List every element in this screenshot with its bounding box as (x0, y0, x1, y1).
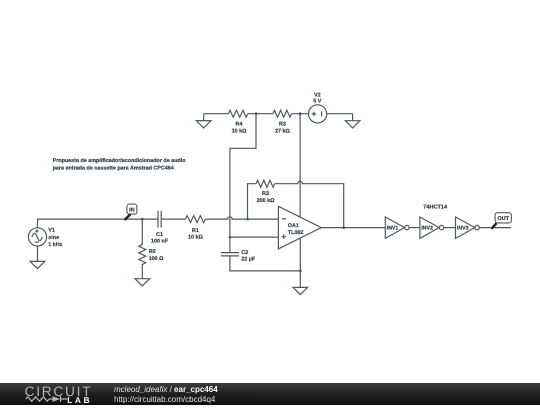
svg-text:200 kΩ: 200 kΩ (257, 198, 275, 204)
inverter INV2 (420, 217, 439, 238)
svg-text:R2: R2 (262, 191, 269, 197)
resistor R4 (228, 110, 247, 117)
wire V1 to ground (37, 246, 39, 261)
annotation text (53, 158, 187, 172)
node flag IN (125, 204, 137, 220)
ground G4 below R5 (135, 279, 150, 286)
wire branch R3V2-junction to opamp V+ (299, 114, 301, 217)
wire branch R4R3-junction to plus-input (230, 114, 256, 237)
svg-text:5 V: 5 V (313, 99, 321, 105)
junction dots (141, 218, 144, 221)
resistor R1 (186, 216, 206, 223)
svg-text:R4: R4 (236, 122, 243, 128)
svg-text:OUT: OUT (497, 216, 509, 222)
resistor R3 (273, 110, 292, 117)
svg-text:Propuesta de amplificador/acon: Propuesta de amplificador/acondicionador… (53, 158, 187, 164)
inverter INV1 (385, 217, 404, 238)
svg-text:INV3: INV3 (457, 226, 469, 232)
footer bar (0, 383, 540, 405)
wire R2 to output (hop over V+ wire) (275, 181, 344, 227)
svg-text:INV1: INV1 (387, 226, 399, 232)
op-amp OA1 triangle (278, 206, 321, 249)
svg-text:10 kΩ: 10 kΩ (188, 234, 203, 240)
source V1 (28, 228, 46, 246)
resistor R5 vertical (139, 219, 146, 279)
op-amp minus mark (282, 218, 286, 220)
svg-text:C1: C1 (156, 232, 163, 238)
svg-text:R3: R3 (279, 122, 286, 128)
svg-text:27 kΩ: 27 kΩ (275, 128, 290, 134)
svg-text:10 kΩ: 10 kΩ (232, 128, 247, 134)
svg-text:TL082: TL082 (288, 230, 304, 236)
svg-text:R1: R1 (192, 228, 199, 234)
voltage source V2 (309, 105, 327, 123)
ground G3 below V1 (30, 261, 45, 268)
wire C1 to R1 (161, 218, 185, 220)
wire top rail left (204, 113, 353, 115)
svg-text:C2: C2 (241, 250, 248, 256)
resistor R2 (256, 180, 274, 187)
ground G2 top-right (345, 114, 359, 128)
wire R2 branch up (248, 184, 257, 219)
wire V1 to main rail (38, 219, 159, 228)
svg-text:100 nF: 100 nF (151, 238, 169, 244)
svg-text:sine: sine (48, 235, 59, 241)
svg-text:V1: V1 (48, 228, 55, 234)
wire plus input (230, 236, 279, 238)
svg-text:LAB: LAB (67, 395, 92, 405)
svg-text:INV2: INV2 (421, 226, 433, 232)
svg-text:OA1: OA1 (288, 223, 299, 229)
op-amp plus mark (281, 234, 286, 239)
CircuitLab logo (0, 383, 110, 405)
ground G1 top-left (196, 114, 211, 128)
wire opamp V- to ground (293, 238, 308, 294)
svg-text:1 kHz: 1 kHz (48, 242, 62, 248)
svg-text:R5: R5 (149, 249, 156, 255)
svg-text:22 µF: 22 µF (241, 256, 256, 262)
capacitor C1 (158, 211, 161, 228)
svg-text:100 Ω: 100 Ω (149, 256, 164, 262)
svg-text:74HCT14: 74HCT14 (423, 204, 448, 210)
svg-text:para entrada de cassette para: para entrada de cassette para Amstrad CP… (53, 165, 174, 171)
svg-text:IN: IN (129, 208, 135, 214)
capacitor C2 branch (221, 237, 301, 271)
wire opamp output (321, 227, 385, 229)
node flag OUT (492, 213, 512, 229)
inverter INV3 (456, 217, 475, 238)
svg-text:V2: V2 (314, 92, 321, 98)
wire R1 to opamp minus input (hop over vertical) (205, 217, 278, 219)
